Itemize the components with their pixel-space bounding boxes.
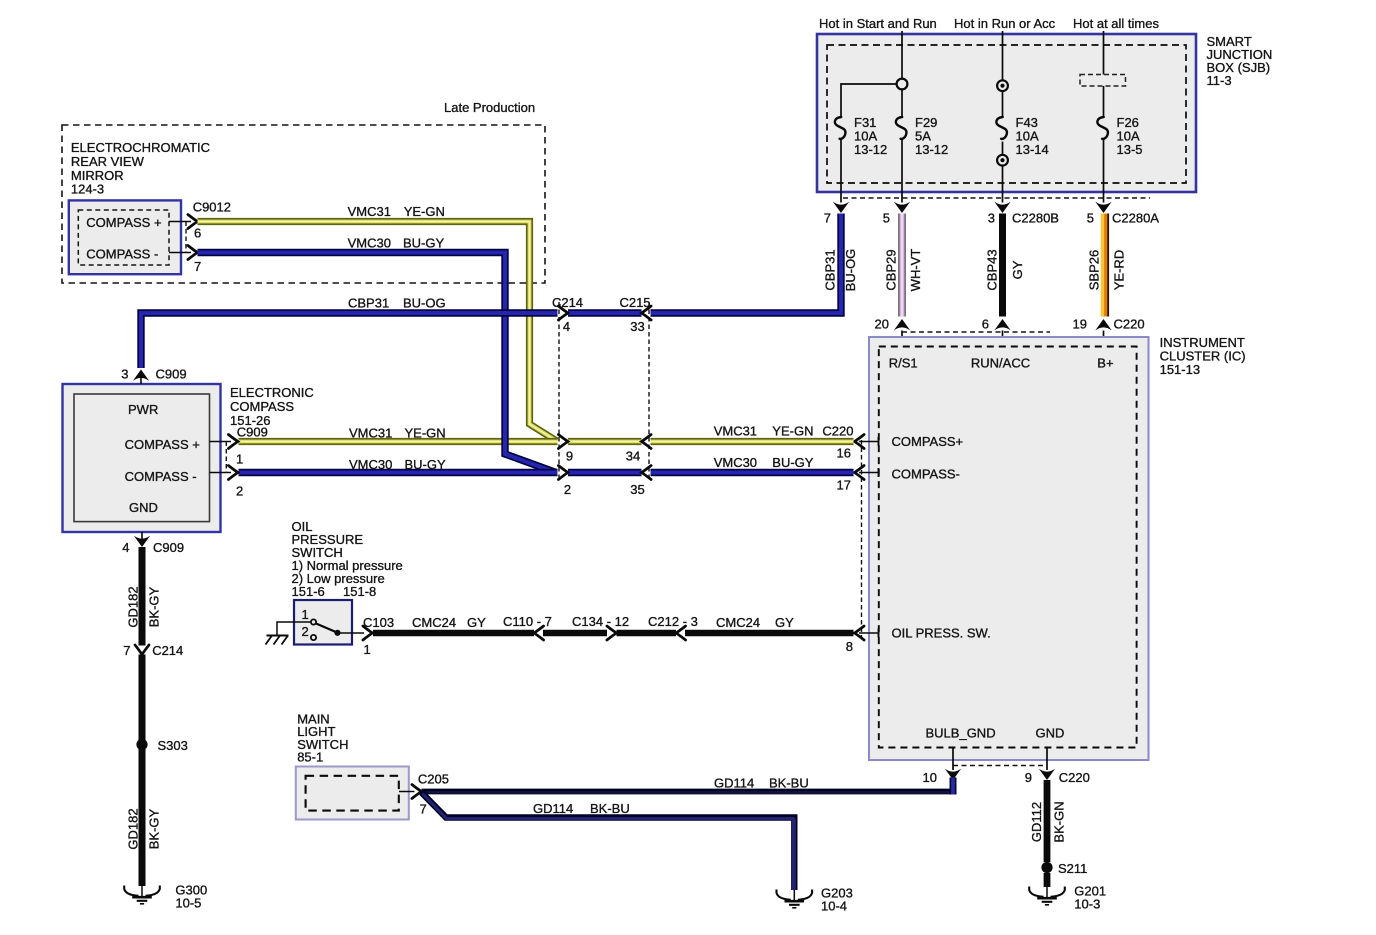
mirror pin 7 connector <box>169 246 201 275</box>
svg-text:C9012: C9012 <box>193 199 231 214</box>
svg-text:Hot in Start and Run: Hot in Start and Run <box>819 16 937 31</box>
svg-text:C134 - 12: C134 - 12 <box>572 614 629 629</box>
svg-text:COMPASS -: COMPASS - <box>86 247 158 262</box>
smart junction box SJB outline <box>817 34 1196 192</box>
svg-text:124-3: 124-3 <box>71 182 104 197</box>
svg-text:COMPASS -: COMPASS - <box>125 469 197 484</box>
wire feed Hot in Start and Run <box>901 31 903 79</box>
svg-text:CMC24: CMC24 <box>412 615 456 630</box>
C214 arrow on VMC30 (pin 2) <box>558 466 571 498</box>
svg-text:5: 5 <box>1087 211 1094 226</box>
svg-text:17: 17 <box>837 478 851 493</box>
svg-text:9: 9 <box>1025 770 1032 785</box>
svg-text:6: 6 <box>982 317 989 332</box>
label GD114 BK-BU (upper) <box>714 776 809 791</box>
svg-text:S211: S211 <box>1058 861 1087 876</box>
svg-text:VMC31: VMC31 <box>714 424 757 439</box>
svg-text:COMPASS-: COMPASS- <box>892 467 960 482</box>
svg-text:2: 2 <box>236 484 243 499</box>
wire feed Hot in Run or Acc <box>1002 31 1004 80</box>
svg-text:C909: C909 <box>156 367 187 382</box>
compass pin 3 connector C909 <box>121 367 186 385</box>
svg-text:GND: GND <box>1036 726 1065 741</box>
IC pin 20 arrow <box>875 317 911 347</box>
label OIL PRESSURE SWITCH notes <box>292 519 403 599</box>
wire VMC31 YE-GN (C215 to IC) <box>651 438 854 445</box>
svg-text:7: 7 <box>194 259 201 274</box>
compass pin 2 connector <box>210 466 244 499</box>
svg-text:13-12: 13-12 <box>915 142 948 157</box>
svg-text:PWR: PWR <box>128 402 158 417</box>
splice S303 <box>136 738 187 753</box>
svg-text:GD112: GD112 <box>1029 802 1044 842</box>
svg-text:RUN/ACC: RUN/ACC <box>971 356 1030 371</box>
svg-text:20: 20 <box>875 317 889 332</box>
connector C212 pin 3 <box>648 614 698 640</box>
svg-text:C2280B: C2280B <box>1012 211 1059 226</box>
ground G300 10-5 <box>124 883 207 911</box>
svg-text:YE-RD: YE-RD <box>1112 250 1127 290</box>
svg-text:VMC31: VMC31 <box>348 204 391 219</box>
svg-text:Hot in Run or Acc: Hot in Run or Acc <box>954 16 1056 31</box>
late production dashed box <box>62 125 545 283</box>
oil pressure switch box <box>294 600 352 645</box>
connector C205 pin 7 <box>399 772 449 817</box>
svg-text:C909: C909 <box>153 540 184 555</box>
svg-text:151-8: 151-8 <box>343 584 376 599</box>
svg-text:3: 3 <box>988 211 995 226</box>
switch contact 1 <box>302 607 317 625</box>
label VMC30 BU-GY (compass run) <box>349 457 446 472</box>
svg-text:GD182: GD182 <box>125 586 140 627</box>
C214 arrow on VMC31 (pin 9) <box>558 435 573 464</box>
svg-text:10-3: 10-3 <box>1074 897 1100 912</box>
svg-text:COMPASS +: COMPASS + <box>125 437 200 452</box>
wire branch to F31 <box>841 84 897 117</box>
svg-text:VMC31: VMC31 <box>349 426 392 441</box>
connector pin 7 arrow (CBP31) <box>833 202 849 213</box>
svg-text:CBP31: CBP31 <box>823 249 838 290</box>
svg-text:VMC30: VMC30 <box>348 236 391 251</box>
connector pin 5 arrow (CBP29) <box>894 202 910 213</box>
label CMC24 GY (right) <box>716 615 794 630</box>
label INSTRUMENT CLUSTER (IC) 151-13 <box>1160 335 1246 377</box>
svg-text:151-13: 151-13 <box>1160 362 1200 377</box>
junction ring at F29 feed <box>897 79 908 90</box>
svg-text:C215: C215 <box>619 295 650 310</box>
switch contact 2 <box>302 624 317 640</box>
svg-text:GY: GY <box>775 615 794 630</box>
svg-text:BK-GY: BK-GY <box>147 808 162 849</box>
svg-text:6: 6 <box>194 226 201 241</box>
wire CBP31 BU-OG (SJB drop to C215) <box>651 214 842 314</box>
svg-text:GD114: GD114 <box>533 801 573 816</box>
ground G201 10-3 <box>1029 884 1106 912</box>
ground G203 10-4 <box>777 886 853 914</box>
label CBP31 BU-OG (horizontal run) <box>348 296 446 311</box>
label VMC31 YE-GN (compass run) <box>349 426 446 441</box>
wire F43 to fuse <box>1002 91 1004 117</box>
svg-text:R/S1: R/S1 <box>889 356 918 371</box>
svg-text:COMPASS: COMPASS <box>230 399 294 414</box>
chassis ground (oil switch) <box>266 636 289 645</box>
svg-text:3: 3 <box>121 367 128 382</box>
label MAIN LIGHT SWITCH 85-1 <box>297 712 348 765</box>
svg-text:2: 2 <box>302 624 309 639</box>
IC pin 6 arrow <box>982 317 1011 347</box>
test point bullseye below F43 <box>997 155 1008 203</box>
svg-text:BK-GN: BK-GN <box>1052 801 1067 842</box>
wire CMC24 GY (C103 to C110) <box>373 630 534 637</box>
C215 arrow on VMC31 (pin 34) <box>626 435 651 464</box>
svg-text:YE-GN: YE-GN <box>404 204 445 219</box>
fuse F31 10A 13-12 <box>835 115 887 203</box>
svg-text:7: 7 <box>420 802 427 817</box>
wire CMC24 GY (C212 to IC) <box>685 630 854 637</box>
connector C110 pin 7 <box>503 614 552 640</box>
label VMC30 BU-GY (mirror run) <box>348 236 445 251</box>
svg-text:BULB_GND: BULB_GND <box>926 726 996 741</box>
wire CMC24 GY (C134 to C212) <box>617 630 677 637</box>
dashed link element above F26 <box>1080 75 1126 87</box>
wire CBP31 BU-OG (C215 to C214) <box>568 309 642 316</box>
svg-text:OIL PRESS. SW.: OIL PRESS. SW. <box>892 626 991 641</box>
svg-text:2: 2 <box>564 482 571 497</box>
connector pin 3 arrow (CBP43) <box>994 202 1010 213</box>
pin 5 label and C2280A <box>1087 211 1160 226</box>
svg-text:C220: C220 <box>822 424 853 439</box>
svg-text:11-3: 11-3 <box>1207 73 1232 88</box>
wire GD182 BK-GY (S303 to G300) <box>139 749 146 886</box>
svg-text:13-5: 13-5 <box>1117 142 1143 157</box>
svg-text:C214: C214 <box>552 295 583 310</box>
splice S211 <box>1041 861 1087 876</box>
connector C214 dashed vertical <box>558 302 560 480</box>
svg-text:34: 34 <box>626 449 640 464</box>
label VMC31 YE-GN C220 (IC run) <box>714 424 854 439</box>
electronic compass box <box>63 384 221 532</box>
svg-text:COMPASS +: COMPASS + <box>86 215 161 230</box>
svg-text:10-5: 10-5 <box>175 896 201 911</box>
svg-text:4: 4 <box>563 319 570 334</box>
label VMC31 YE-GN (mirror run) <box>348 204 445 219</box>
C215 arrow on VMC30 (pin 35) <box>630 466 651 498</box>
svg-text:BK-BU: BK-BU <box>769 776 809 791</box>
wire VMC31 YE-GN (mirror run and drop) <box>198 222 558 442</box>
wire CMC24 GY (C110 to C134) <box>543 630 607 637</box>
svg-text:VMC30: VMC30 <box>349 457 392 472</box>
svg-text:GY: GY <box>1010 260 1025 279</box>
svg-text:ELECTROCHROMATIC: ELECTROCHROMATIC <box>71 140 210 155</box>
connector C2280 dashed line <box>843 197 1150 199</box>
svg-text:GD182: GD182 <box>125 808 140 849</box>
svg-text:BU-OG: BU-OG <box>843 249 858 292</box>
main light switch box <box>296 767 409 820</box>
svg-text:8: 8 <box>846 639 853 654</box>
compass pin 1 connector <box>210 425 268 467</box>
test point bullseye above F43 <box>997 80 1008 91</box>
label VMC30 BU-GY (IC run) <box>714 455 814 470</box>
svg-text:C2280A: C2280A <box>1112 211 1159 226</box>
svg-text:BU-OG: BU-OG <box>403 296 446 311</box>
svg-text:4: 4 <box>122 540 129 555</box>
svg-text:85-1: 85-1 <box>297 750 323 765</box>
svg-text:Late Production: Late Production <box>444 100 535 115</box>
wire GD112 BK-GN (S211 to G201) <box>1044 873 1051 887</box>
IC pin 16 connector <box>837 435 879 461</box>
svg-text:C220: C220 <box>1059 770 1090 785</box>
IC pin 9 connector and C220 <box>1025 748 1090 786</box>
svg-text:19: 19 <box>1073 317 1087 332</box>
svg-text:CBP43: CBP43 <box>985 249 1000 290</box>
svg-text:7: 7 <box>824 211 831 226</box>
wire VMC31 YE-GN (C214 to C215) <box>568 438 642 445</box>
label CMC24 GY (left) <box>412 615 486 630</box>
connector C909 dashed vertical (right) <box>225 442 227 473</box>
svg-text:C214: C214 <box>152 643 183 658</box>
pin 3 label and C2280B <box>988 211 1059 226</box>
C214 arrow on CBP31 (pin 4) <box>558 306 570 334</box>
svg-text:GD114: GD114 <box>714 776 754 791</box>
wire GD112 BK-GN (pin 9 to S211) <box>1044 780 1051 862</box>
svg-text:16: 16 <box>837 446 851 461</box>
connector C134 pin 12 <box>572 614 629 640</box>
svg-text:BK-BU: BK-BU <box>590 801 630 816</box>
svg-text:C212 - 3: C212 - 3 <box>648 614 698 629</box>
svg-text:GND: GND <box>129 500 158 515</box>
svg-text:S303: S303 <box>158 738 188 753</box>
svg-text:CMC24: CMC24 <box>716 615 760 630</box>
wire feed Hot at all times <box>1103 31 1105 75</box>
fuse F43 10A 13-14 <box>996 115 1048 157</box>
svg-text:35: 35 <box>630 482 644 497</box>
svg-text:BK-GY: BK-GY <box>147 586 162 627</box>
svg-text:BU-GY: BU-GY <box>403 236 445 251</box>
wire GD182 BK-GY (pin4 to C214) <box>139 547 146 646</box>
IC pin 19 arrow and C220 <box>1073 317 1145 347</box>
svg-text:CBP31: CBP31 <box>348 296 389 311</box>
svg-text:C909: C909 <box>237 425 268 440</box>
svg-text:7: 7 <box>123 643 130 658</box>
label ELECTROCHROMATIC REAR VIEW MIRROR 124-3 <box>71 140 210 197</box>
svg-text:SBP26: SBP26 <box>1087 250 1102 290</box>
wire CBP31 BU-OG (C214 to compass) <box>141 313 558 368</box>
svg-text:1: 1 <box>236 452 243 467</box>
wire SBP26 YE-RD vertical <box>1105 214 1109 317</box>
svg-text:C220: C220 <box>1114 317 1145 332</box>
mirror pin 6 connector <box>169 199 231 240</box>
svg-text:5: 5 <box>883 211 890 226</box>
svg-text:VMC30: VMC30 <box>714 455 757 470</box>
svg-text:10: 10 <box>923 770 937 785</box>
svg-text:1: 1 <box>364 642 371 657</box>
svg-text:WH-VT: WH-VT <box>908 249 923 292</box>
svg-text:GY: GY <box>467 615 486 630</box>
connector pin 5 arrow (SBP26) <box>1095 202 1111 213</box>
wire GD182 BK-GY (C214 to S303) <box>139 655 146 741</box>
svg-text:BU-GY: BU-GY <box>772 455 814 470</box>
wire VMC30 BU-GY (C214 to C215) <box>568 469 642 476</box>
fuse F26 10A 13-5 <box>1097 115 1142 203</box>
wire VMC30 BU-GY (compass run) <box>239 469 558 476</box>
connector C103 pin 1 <box>363 615 394 657</box>
wire CBP29 WH-VT vertical <box>898 214 906 317</box>
label GD114 BK-BU (lower) <box>533 801 630 816</box>
svg-text:Hot at all times: Hot at all times <box>1073 16 1159 31</box>
wire switch to chassis ground <box>277 622 311 635</box>
svg-text:B+: B+ <box>1097 356 1113 371</box>
wire GD114 BK-BU (C205 to IC pin 10) <box>422 789 957 796</box>
label ELECTRONIC COMPASS 151-26 <box>230 385 314 428</box>
svg-text:10-4: 10-4 <box>821 899 847 914</box>
svg-text:REAR VIEW: REAR VIEW <box>71 154 145 169</box>
svg-text:C205: C205 <box>418 772 449 787</box>
wire stub at IC pin 10 <box>950 778 957 795</box>
mirror component box <box>69 200 181 274</box>
wire VMC30 BU-GY (C215 to IC) <box>651 469 854 476</box>
svg-text:YE-GN: YE-GN <box>772 424 813 439</box>
wire F29 to fuse <box>901 90 903 118</box>
C215 arrow on CBP31 (pin 33) <box>630 306 651 334</box>
svg-text:13-12: 13-12 <box>854 142 887 157</box>
C214 pin 7 in-line connector <box>123 643 183 658</box>
wire F26 to fuse <box>1103 86 1105 117</box>
compass pin 4 connector C909 <box>122 532 184 555</box>
wire CBP43 GY vertical <box>999 214 1006 317</box>
connector C215 dashed vertical <box>648 302 650 480</box>
instrument cluster IC box <box>869 337 1149 760</box>
wire GD114 BK-BU (C205 to G203) <box>422 793 795 891</box>
switch lever <box>316 624 364 636</box>
svg-text:9: 9 <box>566 449 573 464</box>
wire VMC30 BU-GY (mirror run and drop) <box>198 253 557 473</box>
svg-text:BU-GY: BU-GY <box>405 457 447 472</box>
connector C220 dashed line (IC top) <box>902 331 1050 333</box>
svg-text:C110 - 7: C110 - 7 <box>503 614 552 629</box>
svg-text:151-6: 151-6 <box>292 584 325 599</box>
wire VMC31 YE-GN (compass run) <box>239 438 558 445</box>
svg-text:YE-GN: YE-GN <box>405 426 446 441</box>
svg-text:C103: C103 <box>363 615 394 630</box>
IC pin 8 connector <box>846 626 879 654</box>
svg-text:1: 1 <box>302 607 309 622</box>
IC pin 17 connector <box>837 466 879 493</box>
fuse F29 5A 13-12 <box>896 115 948 203</box>
connector C9012 dashed line <box>185 222 187 253</box>
connector C220 dashed vertical (IC left) <box>861 440 863 640</box>
label SMART JUNCTION BOX (SJB) 11-3 <box>1207 34 1273 88</box>
svg-text:13-14: 13-14 <box>1016 142 1049 157</box>
svg-text:ELECTRONIC: ELECTRONIC <box>230 385 314 400</box>
IC pin 10 connector <box>923 748 962 786</box>
svg-text:COMPASS+: COMPASS+ <box>892 434 964 449</box>
svg-text:33: 33 <box>630 319 644 334</box>
svg-text:CBP29: CBP29 <box>884 249 899 290</box>
connector C220 dashed line (IC bottom) <box>953 765 1047 767</box>
